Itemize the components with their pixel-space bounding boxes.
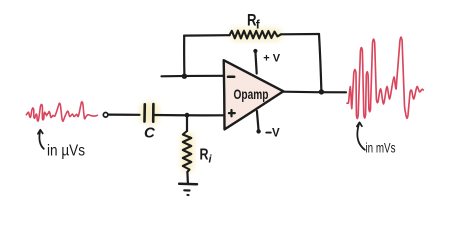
op-amp + input symbol xyxy=(229,110,235,116)
output node junction dot xyxy=(319,89,324,94)
node B junction dot (inverting input) xyxy=(182,74,187,79)
input waveform (red) xyxy=(26,102,97,122)
wire: capacitor to op-amp + input (through node A) xyxy=(155,114,224,117)
svg-text:+ V: + V xyxy=(263,52,280,64)
svg-text:Opamp: Opamp xyxy=(234,87,269,102)
svg-text:R: R xyxy=(200,146,209,163)
output waveform (red) xyxy=(347,37,423,118)
wire: +V stub xyxy=(255,52,256,74)
input terminal (open circle) xyxy=(103,113,108,118)
capacitor C plates xyxy=(145,104,154,122)
glow highlight behind capacitor C xyxy=(140,102,159,124)
wire: output xyxy=(284,91,347,94)
label -V xyxy=(266,132,271,134)
op-amp - input symbol xyxy=(228,76,234,79)
input annotation arrow xyxy=(38,130,44,149)
wire: op-amp - input (through node B) xyxy=(162,75,224,78)
op-amp U1 xyxy=(224,60,284,129)
wire: top rail left segment xyxy=(184,34,229,37)
wire: node A down to Ri xyxy=(186,115,188,131)
node A junction dot (capacitor / Ri) xyxy=(185,113,190,118)
svg-text:C: C xyxy=(144,124,156,141)
+V supply dot xyxy=(253,49,257,53)
wire: top rail right segment xyxy=(281,33,319,35)
svg-text:in µVs: in µVs xyxy=(47,143,85,160)
glow highlight behind resistor Ri xyxy=(181,132,194,172)
wire: input terminal to capacitor xyxy=(109,113,140,115)
wire: feedback left vertical xyxy=(183,36,185,76)
wire: -V stub xyxy=(257,111,259,131)
wire: feedback right vertical xyxy=(319,34,321,92)
output annotation arrow xyxy=(357,122,365,149)
resistor Rf zigzag xyxy=(230,31,282,39)
ground xyxy=(179,184,197,195)
-V supply dot xyxy=(256,129,260,133)
svg-text:V: V xyxy=(272,128,280,140)
svg-text:i: i xyxy=(209,154,213,166)
wire: Ri to ground xyxy=(186,172,189,184)
resistor Ri zigzag xyxy=(183,131,192,172)
svg-text:in mVs: in mVs xyxy=(366,140,396,155)
glow highlight behind resistor Rf xyxy=(230,28,282,41)
